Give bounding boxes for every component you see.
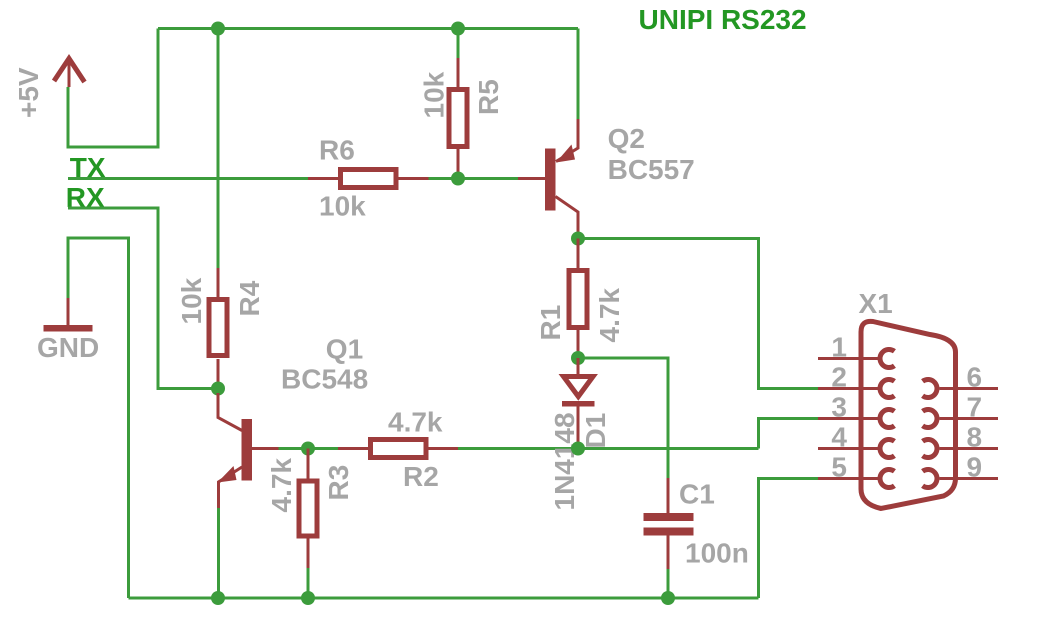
svg-text:R2: R2 [403,461,439,492]
svg-text:2: 2 [831,362,847,393]
wire R2 right to DB9 pin3 net [458,447,759,450]
wire bottom ground rail [129,597,759,600]
svg-text:9: 9 [967,452,983,483]
wire DB9 pin5 to ground rail [759,479,819,599]
pin 7 of X1 [923,410,998,428]
resistor R5 [449,29,467,179]
pin 5 of X1 [818,469,894,487]
svg-text:D1: D1 [580,413,611,449]
svg-text:7: 7 [967,392,983,423]
junction R5 bottom / R6 / Q2 base [451,172,465,186]
pin 1 of X1 [818,350,894,368]
pin 6 of X1 [923,379,998,397]
resistor R2 [338,440,458,458]
svg-text:100n: 100n [685,538,749,569]
junction top rail at R4 column [211,22,225,36]
resistor R1 [569,239,587,359]
resistor R4 [209,29,227,389]
wire top +5V rail [158,27,578,30]
svg-text:GND: GND [37,332,99,363]
svg-text:6: 6 [967,362,983,393]
svg-text:R5: R5 [473,79,504,115]
svg-text:1: 1 [831,332,847,363]
ground GND symbol [44,298,93,332]
wire +5V net to top rail [68,29,158,148]
svg-text:5: 5 [831,452,847,483]
pin 3 of X1 [818,410,894,428]
capacitor C1 [644,478,694,598]
junction bottom rail R3 [301,591,315,605]
wire GND net to bottom rail [68,238,129,598]
junction top rail at R5 column [451,22,465,36]
connector X1 DB9 body [861,321,956,508]
svg-text:4.7k: 4.7k [594,288,625,343]
pin 8 of X1 [923,440,998,458]
junction R4 bottom / RX / Q1 collector [211,382,225,396]
transistor Q2 [518,29,578,234]
supply +5V symbol [54,59,85,88]
junction Q2 collector / R1 top [571,232,585,246]
svg-text:10k: 10k [419,71,450,118]
junction R1 bottom / D1 / C1 net [571,351,585,365]
svg-text:1N4148: 1N4148 [549,412,580,510]
svg-text:4: 4 [831,422,847,453]
transistor Q1 [218,393,279,598]
svg-text:4.7k: 4.7k [388,407,443,438]
svg-text:10k: 10k [176,277,207,324]
svg-text:R3: R3 [323,465,354,501]
resistor R3 [299,449,317,599]
svg-text:Q1: Q1 [326,334,363,365]
svg-text:X1: X1 [859,288,893,319]
svg-text:R6: R6 [319,135,355,166]
svg-text:BC548: BC548 [281,364,368,395]
svg-text:3: 3 [831,392,847,423]
junction D1 cathode / R2 net [571,442,585,456]
svg-text:4.7k: 4.7k [266,458,297,513]
svg-text:Q2: Q2 [608,123,645,154]
wire Q2 base [458,177,518,180]
resistor R6 [308,170,458,188]
wire Q1 base to R2/R3 node [279,447,339,450]
pin 9 of X1 [923,469,998,487]
svg-text:R4: R4 [234,280,265,316]
wire TX to R6 [68,177,308,180]
svg-text:10k: 10k [319,191,366,222]
junction bottom rail Q1 emitter [211,591,225,605]
wire Q2 collector to DB9 pin2 [578,239,818,389]
wire R1 bottom to C1 [578,358,668,478]
svg-text:BC557: BC557 [608,154,695,185]
pin 2 of X1 [818,379,894,397]
wire RX to Q1 collector node [68,208,218,389]
svg-text:C1: C1 [679,479,715,510]
svg-text:+5V: +5V [13,67,44,118]
svg-text:UNIPI RS232: UNIPI RS232 [639,4,807,35]
junction bottom rail C1 [661,591,675,605]
pin 4 of X1 [818,440,894,458]
wire DB9 pin3 riser [759,419,819,449]
svg-text:R1: R1 [535,305,566,341]
junction Q1 base / R3 / R2 [301,442,315,456]
diode D1 [562,358,595,448]
svg-text:8: 8 [967,422,983,453]
